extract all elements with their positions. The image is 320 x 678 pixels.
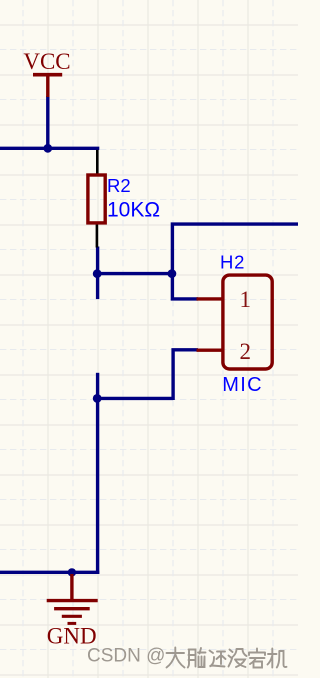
svg-text:2: 2: [239, 339, 251, 364]
svg-text:MIC: MIC: [222, 374, 263, 396]
svg-text:CSDN @: CSDN @: [87, 646, 165, 667]
svg-text:VCC: VCC: [23, 49, 70, 74]
svg-text:10KΩ: 10KΩ: [107, 198, 160, 221]
svg-text:1: 1: [239, 287, 251, 312]
svg-text:R2: R2: [107, 175, 131, 196]
svg-text:H2: H2: [220, 252, 245, 273]
